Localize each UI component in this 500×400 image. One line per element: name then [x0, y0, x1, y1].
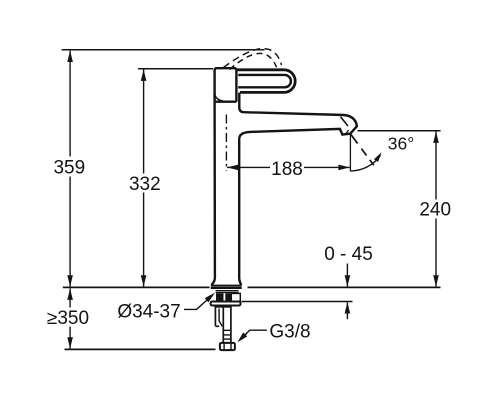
svg-text:Ø34-37: Ø34-37: [117, 301, 180, 322]
shank joint lines: [223, 330, 231, 339]
arrowhead >=350 down: [67, 337, 73, 348]
arrowhead 332 up: [141, 70, 147, 81]
aerator separation notch: [346, 130, 349, 134]
arrowhead 188 left: [227, 165, 238, 171]
svg-text:36°: 36°: [388, 133, 414, 153]
dashed raised handle inner: [230, 53, 277, 69]
arrowhead >=350 up: [67, 289, 73, 300]
arrowhead 359 down: [67, 275, 73, 286]
handle loop outer: [237, 70, 295, 93]
body centerline dash-dot: [225, 115, 227, 171]
counter underside line right: [242, 301, 353, 303]
under flange line: [215, 306, 231, 308]
countertop line left segment: [63, 286, 210, 288]
arrowhead leader G3/8: [237, 332, 247, 342]
mounting flange: [211, 302, 241, 306]
svg-text:G3/8: G3/8: [269, 322, 310, 343]
angle arc 36deg: [351, 155, 381, 171]
svg-text:332: 332: [129, 174, 161, 195]
svg-text:240: 240: [419, 200, 451, 221]
svg-text:0 - 45: 0 - 45: [324, 244, 373, 265]
arrowhead angle arc: [374, 152, 382, 162]
arrowhead 240 up: [433, 132, 439, 143]
sub-rim line 1: [216, 290, 239, 292]
extension line top (359 upper reference): [62, 49, 265, 51]
extension line 332 upper reference: [138, 68, 213, 70]
body left edge: [211, 102, 215, 285]
arrowhead leader Ø34-37: [205, 293, 215, 303]
arrowhead 359 up: [67, 51, 73, 62]
nut facet lines: [224, 343, 231, 350]
spout and right body edge: [239, 93, 357, 285]
skirt rim bottom thick line: [211, 286, 242, 289]
dimension line 188: [227, 166, 350, 168]
arrowhead 0-45 down: [345, 275, 351, 286]
dimension line >=350: [69, 289, 71, 349]
dimension line 0-45 lower: [346, 302, 348, 319]
bottom clearance line (>=350): [65, 348, 216, 350]
clamp bracket outer: [215, 307, 219, 327]
leader line G3/8: [242, 330, 267, 338]
handle loop inner slot: [238, 75, 291, 87]
faucet cartridge housing: [215, 68, 237, 102]
gasket right white box: [231, 293, 240, 301]
arrowhead 188 right: [338, 165, 349, 171]
gasket white sliver: [224, 293, 226, 301]
skirt rim upper line: [211, 284, 242, 286]
dimension line 332: [143, 70, 145, 287]
extension line spout tip (240 reference): [358, 130, 441, 132]
arrowhead 0-45 up: [345, 302, 351, 313]
angle vertex vertical line: [349, 134, 351, 172]
svg-text:≥350: ≥350: [47, 308, 89, 329]
svg-text:359: 359: [53, 157, 85, 178]
sub-rim line 2: [216, 292, 239, 294]
housing chamfer curve: [215, 95, 227, 102]
water stream dashed line 36deg: [351, 135, 374, 166]
dashed raised handle outer: [224, 49, 282, 68]
connection nut G3/8: [220, 343, 235, 350]
countertop line right segment: [248, 286, 441, 288]
leader line Ø34-37: [184, 299, 209, 310]
dimension line 240: [435, 132, 437, 287]
arrowhead 332 down: [141, 275, 147, 286]
threaded shank: [223, 306, 231, 343]
gasket black band: [216, 293, 231, 301]
spout bend inner line: [341, 117, 349, 126]
clamp bracket inner: [219, 309, 222, 327]
svg-text:188: 188: [271, 159, 303, 180]
arrowhead 240 down: [433, 275, 439, 286]
dimension line 0-45 upper: [346, 264, 348, 287]
dimension line 359: [69, 51, 71, 287]
